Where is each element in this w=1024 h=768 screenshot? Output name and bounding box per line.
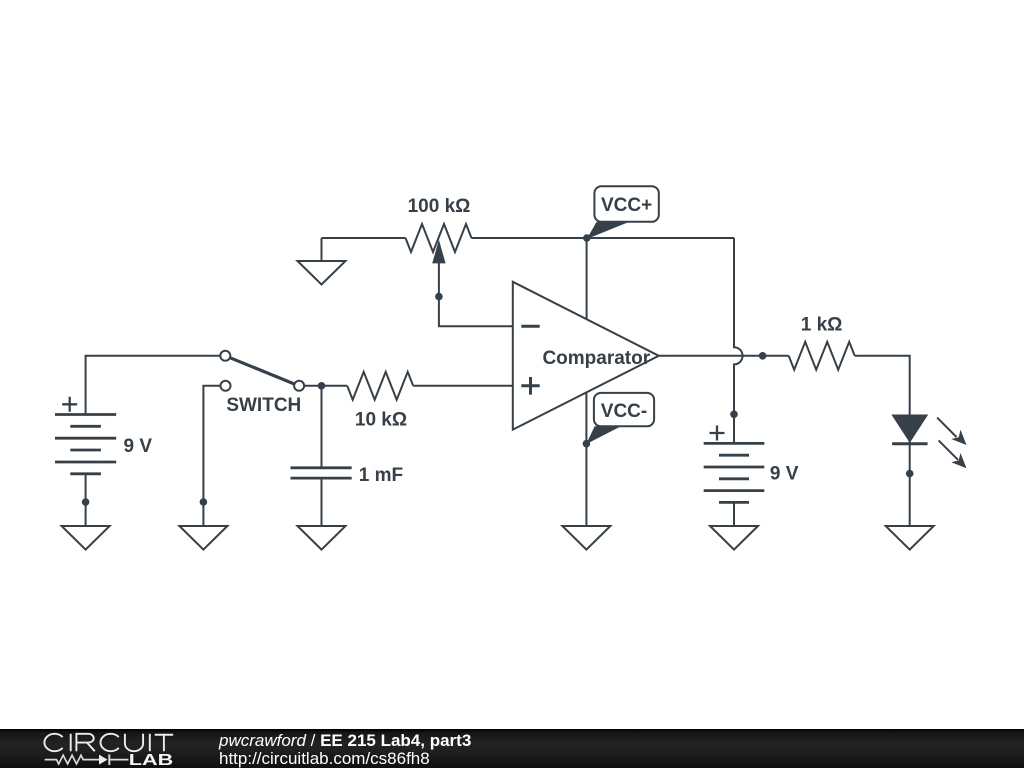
switch SW1 terminal circle bottom-left [221, 381, 231, 391]
svg-text:http://circuitlab.com/cs86fh8: http://circuitlab.com/cs86fh8 [219, 749, 430, 768]
ground (capacitor C1) [298, 526, 346, 550]
svg-text:SWITCH: SWITCH [226, 395, 301, 416]
junction dot battery V1 bottom [82, 498, 90, 506]
svg-text:10 kΩ: 10 kΩ [355, 410, 407, 431]
wire VCC+ top rail [472, 237, 735, 239]
CircuitLab logo wordmark CIRCUIT (monoline letters) [44, 734, 173, 751]
svg-text:pwcrawford / EE 215 Lab4, part: pwcrawford / EE 215 Lab4, part3 [218, 731, 471, 750]
wire top-left rail from pot ground stub to pot [322, 237, 406, 239]
wire switch common to resistor R2 [304, 385, 347, 387]
VCC- flag box [594, 393, 654, 426]
LED D1 triangle [893, 416, 926, 442]
potentiometer R1 100k zigzag [406, 224, 472, 252]
ground (battery V2) [710, 526, 758, 550]
op-amp U1 comparator triangle [513, 282, 659, 430]
op-amp U1 non-inverting input plus symbol [521, 377, 539, 395]
ground (pot, top-left) [298, 238, 346, 285]
ground (battery V1) [62, 526, 110, 550]
VCC+ flag box [594, 186, 658, 222]
LED D1 light arrow 2 head [951, 453, 966, 468]
switch SW1 common terminal circle [294, 381, 304, 391]
wire op-amp V+ supply drop [586, 238, 588, 322]
capacitor C1 plates [291, 468, 352, 478]
LED D1 light arrow 1 head [951, 430, 966, 445]
wire resistor R2 to non-inverting input [413, 385, 513, 387]
junction dot output node [759, 352, 767, 360]
svg-text:VCC+: VCC+ [601, 195, 652, 216]
wire battery V1 top to switch pole [86, 356, 221, 415]
wire right rail with hop over output wire [734, 238, 743, 443]
op-amp U1 inverting input minus symbol [521, 325, 539, 328]
svg-text:Comparator: Comparator [542, 348, 650, 369]
LED D1 light arrow 1 shaft [937, 418, 956, 437]
wire resistor R3 to LED [855, 356, 910, 416]
svg-text:1 kΩ: 1 kΩ [801, 315, 843, 336]
battery V2 plates (9V right) [704, 443, 765, 502]
ground (VCC- net) [562, 526, 610, 550]
wire capacitor C1 top [321, 386, 323, 468]
potentiometer wiper arrowhead [432, 240, 445, 264]
battery V1 plates (9V left) [55, 415, 116, 474]
resistor R2 10k zigzag [347, 372, 413, 400]
svg-text:9 V: 9 V [124, 436, 153, 457]
svg-text:9 V: 9 V [770, 464, 799, 485]
junction dot switch-capacitor node [318, 382, 326, 390]
wire op-amp V- supply to ground [585, 390, 587, 526]
junction dot battery V2 top [730, 411, 738, 419]
junction dot VCC+ node [583, 234, 591, 242]
junction dot LED bottom [906, 470, 914, 478]
resistor R3 1k zigzag [789, 342, 855, 370]
ground (LED) [886, 526, 934, 550]
switch SW1 terminal circle top-left [220, 351, 230, 361]
potentiometer wiper arrow shaft and wire to inverting input [439, 262, 513, 326]
wire capacitor C1 bottom to ground [321, 478, 323, 526]
VCC+ flag pointer [587, 222, 629, 239]
footer bar [0, 729, 1024, 768]
battery V2 plus sign [710, 426, 725, 441]
junction dot pot wiper [435, 293, 443, 301]
svg-text:VCC-: VCC- [601, 401, 647, 422]
svg-text:1 mF: 1 mF [359, 465, 403, 486]
wire switch throw 2 stub to ground [203, 386, 220, 526]
wire op-amp output to resistor R3 [659, 355, 789, 357]
wire battery V2 bottom to ground [733, 502, 735, 526]
svg-text:LAB: LAB [129, 752, 174, 768]
ground (switch) [179, 526, 227, 550]
wire LED to ground [909, 441, 911, 526]
switch SW1 blade [230, 358, 295, 384]
svg-text:100 kΩ: 100 kΩ [408, 196, 471, 217]
VCC- flag pointer [586, 426, 621, 444]
LED D1 cathode bar [892, 442, 928, 445]
battery V1 plus sign [62, 397, 77, 412]
CircuitLab logo diode triangle [99, 755, 108, 765]
CircuitLab logo resistor-diode glyph [45, 754, 129, 765]
junction dot VCC- node [583, 440, 591, 448]
wire battery V1 bottom to ground [85, 474, 87, 526]
LED D1 light arrow 2 shaft [939, 440, 958, 459]
junction dot switch ground wire [200, 498, 208, 506]
